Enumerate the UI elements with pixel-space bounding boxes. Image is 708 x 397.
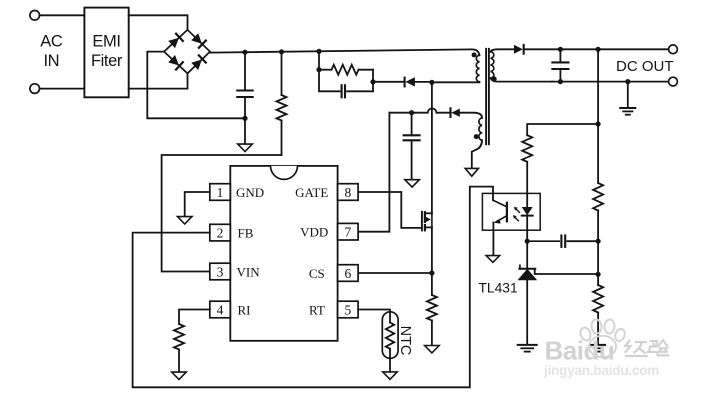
resistor R6 divider top (593, 183, 603, 211)
svg-text:2: 2 (217, 225, 224, 240)
node CS-source-R3 (429, 270, 434, 275)
wire AC-top to EMI (40, 14, 85, 16)
pin 6 box (338, 265, 359, 282)
opto light arrows (516, 209, 520, 213)
transformer T1 core (485, 49, 487, 144)
bridge rectifier diamond (164, 30, 210, 74)
pin 8 box (338, 184, 359, 201)
capacitor C4 output (559, 49, 561, 62)
wire pin5 RT to NTC (358, 310, 390, 312)
earth ground TL431 (518, 344, 537, 346)
svg-text:Baidu: Baidu (545, 336, 615, 366)
svg-text:5: 5 (345, 302, 352, 317)
wire C1 to ground (244, 118, 246, 144)
wire DC+ rail (524, 48, 669, 50)
wire DC- to earth (627, 82, 629, 108)
node TL431-cathode (525, 239, 530, 244)
wire CS pin6 (358, 272, 432, 274)
node snubber-diode (370, 79, 375, 84)
transformer T1 secondary winding (491, 52, 494, 78)
diode D3 (bridge left-bottom) (168, 55, 183, 70)
wire NTC to ground (389, 358, 391, 371)
thermistor NTC (382, 312, 398, 359)
node opto-feed (596, 121, 601, 126)
wire AC-bottom to EMI (40, 88, 85, 90)
ground C3 (arrow) (405, 180, 420, 187)
wire EMI-top to bridge (129, 15, 188, 29)
pin 5 box (338, 301, 359, 318)
svg-text:IN: IN (43, 52, 59, 70)
svg-text:EMI: EMI (92, 32, 120, 50)
wire R1 to VIN pin3 (162, 155, 282, 272)
ground C1 (arrow) (238, 144, 253, 151)
svg-text:jingyan.baidu.com: jingyan.baidu.com (543, 363, 659, 378)
terminal DC- (669, 77, 678, 86)
diode D5 clamp (404, 78, 406, 87)
resistor R4 on RI pin4 (179, 310, 210, 325)
terminal DC+ (669, 45, 678, 54)
pin 3 box (210, 263, 231, 280)
wire EMI-bottom to bridge (129, 73, 188, 88)
wire pin2 FB loop to optocoupler (133, 187, 493, 388)
wire divider mid (597, 241, 599, 274)
capacitor C3 vdd (411, 113, 413, 136)
svg-text:VIN: VIN (237, 265, 261, 280)
node bus-R1 (279, 49, 284, 54)
wire main bus B+ to transformer primary (210, 49, 479, 55)
svg-text:RI: RI (238, 303, 251, 318)
node bottom-rail / C1 (242, 116, 247, 121)
wire source to CS node (431, 227, 433, 273)
wire aux top lead (460, 113, 482, 118)
node TL431-ref (596, 272, 601, 277)
capacitor C1 bulk (244, 52, 246, 90)
node comp-cap right (596, 239, 601, 244)
resistor R2 snubber (319, 69, 332, 71)
transformer T1 auxiliary winding (479, 118, 482, 140)
opto LED (526, 193, 528, 207)
polarity dot secondary (491, 76, 496, 81)
wire snubber to D5 (373, 81, 404, 83)
diode D6 aux rectifier (449, 108, 451, 117)
opto phototransistor (506, 203, 508, 222)
svg-text:TL431: TL431 (479, 281, 518, 296)
pin 2 box (210, 224, 231, 241)
svg-text:8: 8 (345, 185, 352, 200)
wire aux line with hop over drain (389, 108, 450, 112)
svg-text:3: 3 (217, 264, 224, 279)
ground R4 (arrow) (172, 372, 187, 379)
optocoupler U3 box (482, 193, 540, 230)
polarity dot primary (472, 52, 477, 57)
svg-text:VDD: VDD (300, 225, 328, 240)
wire vdd riser to pin7 (358, 113, 389, 232)
ground pin1 (arrow) (177, 217, 192, 224)
svg-text:DC OUT: DC OUT (616, 58, 674, 75)
watermark Baidu jingyan (545, 336, 615, 366)
wire secondary bottom lead (491, 78, 553, 81)
svg-text:1: 1 (217, 185, 224, 200)
pin 4 box (210, 301, 231, 318)
svg-text:CS: CS (309, 266, 325, 281)
node aux-C3 (409, 110, 414, 115)
svg-text:Fiter: Fiter (91, 52, 123, 70)
ground NTC (arrow) (383, 372, 398, 379)
resistor R3 sense (431, 273, 433, 295)
capacitor C2 snubber (319, 70, 340, 92)
ground aux winding (arrow) (465, 168, 478, 176)
node snubber-left (316, 67, 321, 72)
ground opto emitter (arrow) (486, 256, 500, 263)
svg-text:GATE: GATE (295, 185, 328, 200)
wire bus to snubber (318, 51, 320, 69)
wire drain to primary (431, 82, 433, 213)
wire bridge-negative to bottom rail (147, 52, 245, 119)
TL431 U4 shunt regulator (526, 241, 528, 269)
diode D7 output rectifier (514, 45, 523, 54)
node DC- earth (625, 79, 630, 84)
earth ground R7 (591, 344, 605, 346)
wire opto feed (527, 124, 598, 135)
node bus-C1 (242, 50, 247, 55)
svg-text:7: 7 (345, 225, 352, 240)
svg-text:FB: FB (238, 226, 254, 241)
resistor R7 divider bottom (597, 274, 599, 285)
resistor R1 startup (281, 52, 283, 95)
ground R3 (arrow) (425, 346, 440, 353)
svg-text:RT: RT (309, 303, 325, 318)
node divider-top (596, 47, 601, 52)
pin 7 box (338, 223, 359, 240)
transformer T1 primary winding (476, 55, 479, 82)
diode D2 (bridge top-right) (191, 33, 206, 48)
diode D4 (bridge bottom-right) (191, 55, 206, 70)
svg-text:6: 6 (345, 266, 352, 281)
node C4-top (558, 47, 563, 52)
wire secondary top lead (491, 49, 514, 51)
wire pin1 GND (185, 192, 210, 216)
node bus-snubber (316, 49, 321, 54)
svg-text:NTC: NTC (397, 326, 413, 356)
node primary-bottom / drain (429, 80, 434, 85)
wire divider riser (597, 49, 599, 183)
wire snubber-right (372, 70, 374, 92)
EMI filter box (84, 8, 128, 98)
op-amp U1 controller body (230, 166, 337, 341)
wire gate pin8 to Q1 (358, 192, 422, 228)
wire TL431 ref (535, 269, 598, 274)
pin 1 box (210, 184, 231, 201)
diode D1 (bridge left-top) (168, 34, 183, 49)
svg-text:GND: GND (236, 185, 264, 200)
svg-text:AC: AC (40, 32, 63, 50)
wire DC- rail (552, 81, 668, 83)
polarity dot auxiliary (474, 134, 479, 139)
terminal AC-bottom (30, 84, 40, 94)
transistor Q1 mosfet (421, 212, 423, 231)
svg-text:4: 4 (217, 302, 224, 317)
wire aux bottom lead (472, 140, 482, 168)
capacitor C5 compensation (527, 240, 559, 242)
resistor R5 opto feed (522, 135, 532, 162)
node C4-bottom (558, 79, 563, 84)
wire primary bottom (432, 81, 480, 83)
terminal AC-top (30, 11, 40, 21)
earth ground DC-out (620, 107, 635, 109)
